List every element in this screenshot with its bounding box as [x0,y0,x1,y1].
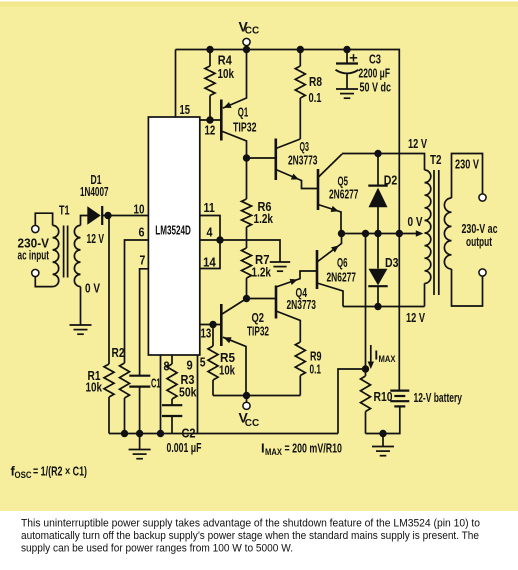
label 230-V ac input [18,236,50,263]
svg-text:12-V battery: 12-V battery [414,390,463,405]
junction on rail at R4 [206,46,213,53]
ground below battery [372,434,394,456]
svg-text:2N3773: 2N3773 [288,153,318,168]
svg-text:MAX: MAX [265,447,283,458]
wire T2 secondary bottom to output terminal [452,269,483,306]
current arrow IMAX [368,345,396,369]
wire sense line [365,234,367,370]
svg-text:0 V: 0 V [408,214,423,229]
label 230-V ac output [462,221,498,249]
node VCC top terminal [239,19,260,50]
node input terminal bottom [32,269,39,276]
diode D2 [368,154,397,234]
junction D3 bottom [374,303,381,310]
wire input top to T1 [35,213,52,225]
svg-text:0.001 μF: 0.001 μF [167,440,202,455]
pin 9 wire resistor R3 50k [167,355,197,405]
svg-text:12 V: 12 V [406,310,425,325]
transistor Q2 TIP32 [200,299,269,396]
svg-text:D2: D2 [384,173,398,188]
svg-text:This uninterruptible power sup: This uninterruptible power supply takes … [21,518,480,530]
svg-text:13: 13 [201,327,212,341]
junction battery ground [379,430,386,437]
resistor R5 10k [208,325,236,396]
resistor R1 10k [86,216,115,434]
svg-text:MAX: MAX [379,354,397,365]
svg-text:12 V: 12 V [87,231,105,246]
svg-text:50k: 50k [179,385,197,400]
svg-text:2200 μF: 2200 μF [359,66,391,81]
svg-text:C3: C3 [369,52,381,67]
capacitor C3 2200uF [336,50,392,95]
svg-text:0 V: 0 V [85,281,100,296]
battery 12V [366,390,463,434]
svg-text:0.1: 0.1 [310,362,322,377]
svg-text:15: 15 [180,103,191,117]
svg-text:2N6277: 2N6277 [327,270,357,285]
junction IMAX sense 0V [362,230,369,237]
capacitor C1 [129,376,160,434]
wire VCC top rail and +12V right rail [176,50,400,391]
pin 5 wire [198,355,206,434]
wire input bottom to T1 [35,277,52,287]
ground at pin 4 [270,262,290,271]
transistor Q6 2N6277 [317,234,356,307]
pin 6 wire to R2 [125,226,149,364]
capacitor C2 0.001uF [162,405,202,455]
transistor Q5 2N6277 [318,154,359,234]
svg-text:D3: D3 [385,255,399,270]
junction Q1 collector node [243,154,250,161]
svg-text:6: 6 [139,226,145,240]
junction right rail 0V [396,230,403,237]
svg-text:OSC: OSC [15,470,32,481]
node output terminal top [479,194,486,201]
svg-text:R8: R8 [309,74,322,89]
junction D2 top [374,150,381,157]
junction C1 bottom [136,430,143,437]
svg-text:TIP32: TIP32 [247,324,269,339]
junction pin 13 R5 [209,321,216,328]
transistor Q3 2N3773 [247,139,319,189]
transformer T1 primary winding [53,203,70,287]
svg-text:12 V: 12 V [408,136,427,151]
svg-text:TIP32: TIP32 [233,120,257,135]
svg-text:7: 7 [140,254,146,268]
resistor R2 [112,345,130,434]
junction Q2 collector R7 [243,295,250,302]
svg-text:= 200 mV/R10: = 200 mV/R10 [285,442,343,456]
svg-text:0.1: 0.1 [309,90,322,105]
resistor R6 1.2k [242,158,274,240]
label Imax formula [261,441,342,459]
wire IMAX node [338,365,369,433]
wire 0V center tap [342,214,424,237]
svg-text:11: 11 [204,201,215,215]
transformer T2 primary winding [425,152,442,307]
diode D1 1N4007 [80,172,148,225]
wire bottom ground rail [109,433,338,435]
svg-text:R2: R2 [112,345,125,360]
transistor Q4 2N3773 [247,271,318,342]
junction D1 cathode pin10 R1 [104,203,144,220]
pin 7 wire to C1 [140,254,149,376]
wire Q6 collector to T2 primary bottom 12V [343,307,425,326]
svg-text:10: 10 [134,203,145,217]
svg-text:1.2k: 1.2k [254,211,274,226]
node input terminal top [32,225,39,232]
svg-text:1.2k: 1.2k [252,265,272,280]
junction D2 D3 0V [374,230,381,237]
wire T1 secondary top to D1 [81,216,105,247]
label fosc formula [11,464,88,482]
transformer T1 core [64,226,68,278]
svg-text:9: 9 [187,359,193,373]
svg-text:4: 4 [207,226,213,240]
op-amp U1 LM3524D IC body [148,117,199,355]
resistor R8 0.1 [295,50,322,140]
wire T1 secondary bottom to ground [81,281,101,326]
svg-text:ac input: ac input [18,248,50,263]
resistor R9 0.1 [295,342,321,396]
svg-text:10k: 10k [86,380,103,395]
junction on rail at C3 [343,46,350,53]
resistor R7 1.2k [242,240,272,299]
node output terminal bottom [479,269,486,276]
transformer T1 secondary winding [74,225,80,286]
svg-text:Q6: Q6 [337,255,348,270]
svg-text:5: 5 [200,356,206,370]
junction on rail at R8 [297,46,304,53]
pin 15 wire [176,50,191,118]
svg-text:12: 12 [205,124,216,138]
svg-text:C1: C1 [151,376,161,391]
wire R5 to R9 bottom [213,395,300,397]
junction C2 bottom [157,430,164,437]
junction on rail at VCC [243,46,250,53]
svg-text:Q1: Q1 [238,105,249,120]
svg-text:2N6277: 2N6277 [329,187,359,202]
svg-text:T2: T2 [430,152,442,167]
transistor Q1 TIP32 [221,50,256,159]
wire Q5 collector to T2 primary top 12V [342,136,427,170]
svg-text:10k: 10k [218,66,235,81]
svg-text:10k: 10k [219,363,236,378]
pin 12 wire [200,116,222,137]
svg-text:50 V dc: 50 V dc [360,80,392,95]
ground below bottom rail [129,434,151,459]
svg-text:T1: T1 [59,203,70,218]
node VCC bottom terminal [239,392,260,429]
svg-text:1N4007: 1N4007 [80,184,109,199]
resistor R10 [361,369,393,434]
svg-text:LM3524D: LM3524D [155,224,191,238]
svg-text:supply can be used for power r: supply can be used for power ranges from… [21,543,293,555]
svg-text:230 V: 230 V [455,157,479,172]
svg-text:CC: CC [245,418,259,429]
diode D3 [368,234,398,307]
junction R2 bottom [121,430,128,437]
ground below T1 [70,325,92,334]
transformer T2 core [434,170,439,295]
svg-text:output: output [466,234,492,249]
svg-text:= 1/(R2 × C1): = 1/(R2 × C1) [33,465,87,479]
svg-text:14: 14 [203,256,216,270]
pin 11 4 14 wires [200,201,280,270]
transformer T2 secondary winding [444,198,451,269]
svg-text:automatically turn off the bac: automatically turn off the backup supply… [21,530,479,542]
svg-text:2N3773: 2N3773 [287,297,317,312]
wire T2 secondary top to output terminal [452,154,483,199]
resistor R4 10k [205,50,235,121]
svg-text:CC: CC [245,26,259,37]
junction emitters 0V [338,230,345,237]
ground below C3 [336,89,358,98]
svg-text:R10: R10 [374,389,393,404]
pin 8 wire [161,355,170,434]
caption text [21,518,480,555]
